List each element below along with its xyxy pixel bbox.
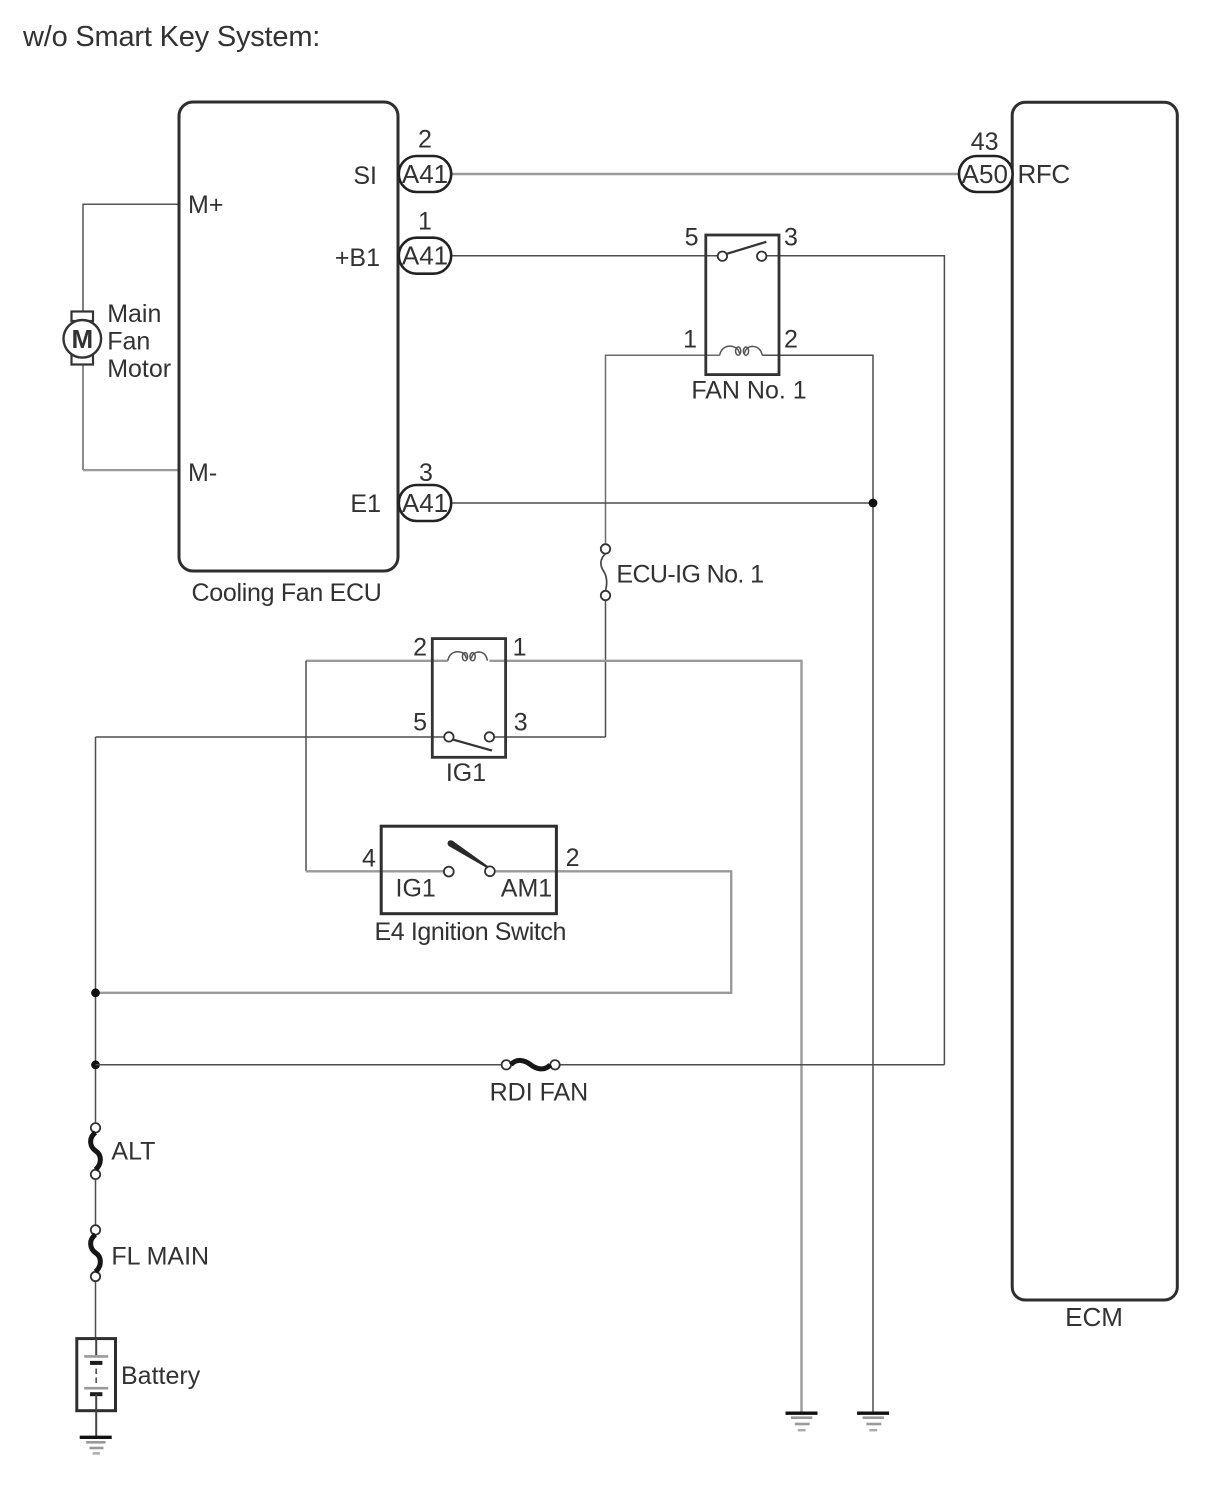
svg-text:A50: A50 — [962, 159, 1008, 189]
svg-text:Battery: Battery — [121, 1362, 201, 1390]
svg-text:1: 1 — [513, 634, 527, 662]
svg-text:FAN No. 1: FAN No. 1 — [691, 377, 806, 405]
svg-text:4: 4 — [362, 845, 376, 873]
svg-text:RDI FAN: RDI FAN — [490, 1079, 589, 1107]
svg-text:E4 Ignition Switch: E4 Ignition Switch — [375, 918, 567, 946]
svg-text:+B1: +B1 — [335, 244, 380, 272]
svg-text:43: 43 — [971, 128, 999, 156]
svg-text:3: 3 — [419, 459, 433, 487]
svg-text:ALT: ALT — [111, 1138, 155, 1166]
svg-text:2: 2 — [784, 326, 798, 354]
svg-text:1: 1 — [683, 326, 697, 354]
svg-text:AM1: AM1 — [501, 875, 552, 903]
svg-text:5: 5 — [413, 709, 427, 737]
svg-text:Fan: Fan — [107, 328, 150, 356]
svg-text:SI: SI — [353, 162, 377, 190]
svg-text:5: 5 — [685, 224, 699, 252]
svg-text:IG1: IG1 — [446, 759, 486, 787]
svg-text:ECU-IG No. 1: ECU-IG No. 1 — [616, 561, 763, 589]
svg-text:ECM: ECM — [1065, 1302, 1123, 1332]
svg-text:3: 3 — [784, 224, 798, 252]
svg-text:2: 2 — [418, 126, 432, 154]
svg-text:3: 3 — [514, 709, 528, 737]
svg-text:Main: Main — [107, 300, 161, 328]
svg-text:A41: A41 — [402, 159, 448, 189]
svg-text:w/o Smart Key System:: w/o Smart Key System: — [22, 21, 320, 53]
svg-text:M+: M+ — [188, 191, 223, 219]
svg-text:Motor: Motor — [107, 355, 171, 383]
svg-text:2: 2 — [413, 634, 427, 662]
svg-text:A41: A41 — [402, 241, 448, 271]
svg-text:RFC: RFC — [1018, 159, 1070, 189]
svg-text:M: M — [71, 324, 93, 354]
svg-text:IG1: IG1 — [396, 875, 436, 903]
svg-text:2: 2 — [566, 844, 580, 872]
svg-text:FL MAIN: FL MAIN — [111, 1243, 209, 1271]
svg-text:A41: A41 — [402, 488, 448, 518]
svg-text:Cooling Fan ECU: Cooling Fan ECU — [192, 579, 382, 607]
svg-text:E1: E1 — [350, 490, 381, 518]
svg-text:M-: M- — [188, 459, 217, 487]
svg-text:1: 1 — [418, 208, 432, 236]
